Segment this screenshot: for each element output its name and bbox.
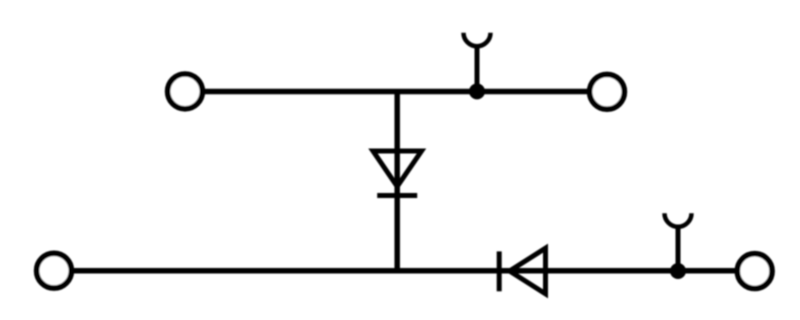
terminal X1 (top left) (168, 74, 203, 109)
terminal X4 (bottom right) (737, 254, 772, 289)
wire bottom rail (54, 268, 755, 274)
junction dot top (469, 83, 485, 99)
junction dot bottom (670, 263, 686, 279)
test tap top (464, 33, 491, 92)
wire top rail (185, 89, 607, 95)
wire vertical branch (394, 92, 400, 271)
diode D1 (pointing down) (373, 151, 422, 196)
terminal X2 (top right) (590, 74, 625, 109)
test tap bottom (665, 213, 692, 271)
diode D2 (pointing left) (499, 248, 545, 294)
terminal X3 (bottom left) (37, 253, 72, 288)
